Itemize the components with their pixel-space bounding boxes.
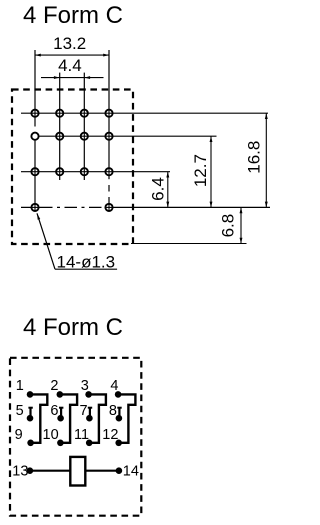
- extension line col4: [108, 50, 110, 176]
- svg-text:12: 12: [102, 427, 118, 443]
- pin hole 10: [56, 168, 63, 175]
- dimension 6.8: [218, 207, 242, 243]
- pin row line 1: [21, 112, 268, 114]
- pin hole 14: [105, 204, 112, 211]
- contact pole 4: NO pin 8 terminal with fixed contact: [116, 408, 123, 422]
- bottom edge extension line: [131, 243, 247, 245]
- dimension 4.4: [41, 56, 104, 79]
- contact pole 2: NC pin 2 terminal: [57, 391, 64, 398]
- svg-text:4 Form C: 4 Form C: [23, 314, 123, 341]
- contact pole 3: NC pin 3 terminal: [85, 391, 92, 398]
- pin hole 12: [105, 168, 112, 175]
- contact pole 1: NO pin 5 terminal with fixed contact: [27, 408, 34, 422]
- svg-text:2: 2: [50, 378, 58, 394]
- wire: pin 13 to coil: [30, 470, 70, 472]
- relay outline (dashed): [12, 90, 133, 245]
- pin hole 6: [56, 133, 63, 140]
- dimension 16.8: [245, 113, 268, 207]
- pin hole 5: [31, 133, 38, 140]
- dimension 13.2: [35, 34, 109, 57]
- leader label 14-ø1.3: [37, 213, 117, 271]
- svg-text:6.4: 6.4: [149, 177, 168, 201]
- svg-text:5: 5: [16, 403, 24, 419]
- svg-text:14-ø1.3: 14-ø1.3: [57, 253, 116, 272]
- contact pole 1: NC pin 1 terminal: [27, 391, 34, 398]
- svg-text:4: 4: [110, 378, 118, 394]
- coil terminal pin 13: [27, 467, 34, 474]
- svg-text:3: 3: [81, 378, 89, 394]
- dimension 6.4: [149, 172, 170, 208]
- pin hole 7: [81, 133, 88, 140]
- contact pole 2: NO pin 6 terminal with fixed contact: [57, 408, 64, 422]
- svg-text:12.7: 12.7: [191, 154, 210, 187]
- svg-text:4.4: 4.4: [58, 56, 82, 75]
- pin hole 9: [31, 168, 38, 175]
- coil K1: [70, 457, 85, 486]
- svg-text:10: 10: [43, 427, 59, 443]
- extension line col3: [83, 73, 85, 180]
- svg-text:16.8: 16.8: [245, 141, 264, 174]
- hidden line col4 row3-row4: [108, 176, 110, 180]
- contact pole 3: NO pin 7 terminal with fixed contact: [86, 408, 93, 422]
- svg-text:1: 1: [16, 378, 24, 394]
- dimension 12.7: [191, 136, 212, 207]
- svg-text:6.8: 6.8: [218, 214, 237, 238]
- contact pole 2: COM pin 10 terminal: [57, 440, 64, 447]
- pin row line 3: [21, 171, 170, 173]
- svg-text:13: 13: [12, 464, 28, 480]
- pin hole 2: [56, 110, 63, 117]
- coil terminal pin 14: [116, 467, 123, 474]
- pin hole 11: [81, 168, 88, 175]
- contact pole 3: COM pin 11 terminal: [86, 440, 93, 447]
- pin hole 13: [31, 204, 38, 211]
- pin hole 4: [105, 110, 112, 117]
- svg-text:4 Form C: 4 Form C: [23, 2, 123, 29]
- svg-text:8: 8: [109, 403, 117, 419]
- wire: pin 2 to common pin 10 (movable contact): [60, 394, 77, 442]
- contact pole 4: NC pin 4 terminal: [115, 391, 122, 398]
- schematic outline (dashed): [10, 358, 141, 516]
- svg-text:6: 6: [50, 403, 58, 419]
- extension line col1: [34, 50, 36, 127]
- contact pole 4: COM pin 12 terminal: [115, 440, 122, 447]
- pin row line 2: [35, 135, 217, 137]
- wire: pin 1 to common pin 9 (movable contact): [30, 394, 47, 442]
- extension line col2: [59, 73, 61, 180]
- svg-text:11: 11: [74, 427, 89, 443]
- svg-text:7: 7: [80, 403, 88, 419]
- pin row line 4 (centerline): [21, 206, 270, 208]
- pin hole 3: [81, 110, 88, 117]
- wire: pin 4 to common pin 12 (movable contact): [118, 394, 135, 442]
- pin hole 1: [31, 110, 38, 117]
- svg-text:14: 14: [123, 464, 139, 480]
- pin hole 8: [105, 133, 112, 140]
- wire: coil to pin 14: [85, 470, 119, 472]
- svg-text:13.2: 13.2: [53, 34, 86, 53]
- svg-text:9: 9: [15, 427, 23, 443]
- wire: pin 3 to common pin 11 (movable contact): [89, 394, 106, 442]
- contact pole 1: COM pin 9 terminal: [27, 440, 34, 447]
